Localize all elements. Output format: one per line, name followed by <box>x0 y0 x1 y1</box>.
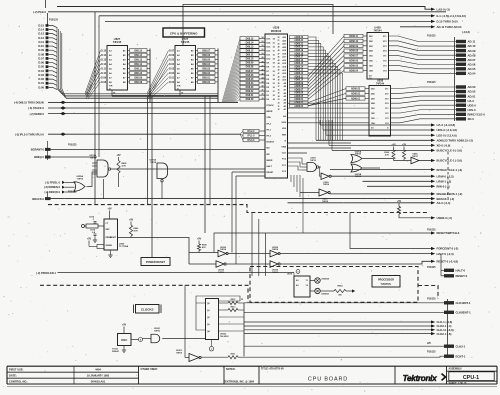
svg-text:43: 43 <box>278 65 280 68</box>
svg-text:D68.12: D68.12 <box>134 63 142 66</box>
svg-text:XD-0 (-6,9): XD-0 (-6,9) <box>437 143 451 147</box>
node UDS-0 output <box>431 128 457 132</box>
svg-text:OTHER USED:: OTHER USED: <box>141 368 158 371</box>
wire counter outputs <box>219 317 245 331</box>
svg-text:D68.02: D68.02 <box>246 90 254 93</box>
svg-text:52: 52 <box>273 87 275 89</box>
svg-text:DS9500: DS9500 <box>322 279 330 281</box>
node BGRANT-0 input <box>31 148 265 152</box>
svg-text:44: 44 <box>278 62 280 65</box>
wire top enable link <box>183 5 333 46</box>
svg-text:36: 36 <box>278 89 280 91</box>
wire AD68.23-12 bundle <box>308 37 431 140</box>
svg-text:41: 41 <box>278 72 280 75</box>
svg-text:BREQ-0: BREQ-0 <box>34 155 44 159</box>
node BREQ-0 input <box>34 155 97 159</box>
svg-text:D68.05: D68.05 <box>202 58 210 61</box>
buffer U458 74F244 <box>367 26 389 80</box>
wire CPU control row 3 <box>288 152 308 154</box>
node D.15 connector pin <box>38 23 57 27</box>
resistor R360 pullup <box>384 144 396 161</box>
svg-text:D68.05: D68.05 <box>246 78 254 81</box>
svg-text:39: 39 <box>262 98 264 100</box>
svg-text:ECNT-1: ECNT-1 <box>456 354 466 358</box>
svg-text:SHEET: 1 OF 10: SHEET: 1 OF 10 <box>449 382 467 385</box>
nand U9101A 74F00 <box>143 328 206 343</box>
node CLK2-1 b output <box>431 332 451 336</box>
wire dashed section boundary <box>48 205 429 213</box>
svg-text:CLK2-1 (-6): CLK2-1 (-6) <box>437 332 452 336</box>
connector label P15/J25 <box>427 229 436 231</box>
svg-text:D68.01: D68.01 <box>246 94 254 97</box>
wire AS-0 <box>288 202 432 204</box>
svg-text:(-2) DERR-0: (-2) DERR-0 <box>30 112 45 116</box>
wire AD68.11-04 to U458 <box>308 36 344 99</box>
node PLB-0 input label <box>33 10 46 14</box>
svg-text:BRACK-0: BRACK-0 <box>32 197 44 201</box>
wire CPU RESET to reset row <box>236 176 265 264</box>
wire CLK10NT <box>244 302 444 304</box>
wire U827 outputs to D68 bus <box>149 49 151 103</box>
svg-text:74F00: 74F00 <box>176 351 183 354</box>
svg-text:D68.02: D68.02 <box>202 72 210 75</box>
svg-text:AD68.18: AD68.18 <box>294 52 304 55</box>
buffer U827 74F245 <box>101 37 127 90</box>
svg-text:41: 41 <box>262 89 264 92</box>
svg-text:52: 52 <box>262 45 264 47</box>
svg-text:+5V: +5V <box>107 208 112 211</box>
wire U558 outputs <box>391 87 457 123</box>
wire AD68.03-01 to U558 <box>308 89 346 106</box>
junction 4 <box>131 338 143 342</box>
node XD-0 output <box>431 143 450 147</box>
svg-text:54: 54 <box>262 36 264 39</box>
svg-text:RESET: RESET <box>267 172 275 174</box>
resistor R954 390 <box>320 284 355 296</box>
node RESET-0 output <box>431 259 458 263</box>
svg-text:31: 31 <box>278 106 280 108</box>
node AD.06 connector pin <box>456 62 476 66</box>
wire clock bus vertical <box>243 303 245 356</box>
svg-text:(-2) DESUD-0: (-2) DESUD-0 <box>44 191 60 194</box>
svg-text:D.10: D.10 <box>101 73 107 75</box>
node ROMEN-0 input <box>44 186 75 190</box>
svg-text:34: 34 <box>278 95 280 98</box>
wire U727 outputs to D68 bus <box>217 49 219 103</box>
wire bus riser to U827 <box>85 50 101 98</box>
node D.05 connector pin <box>38 65 57 69</box>
svg-text:AD68.21: AD68.21 <box>294 42 304 45</box>
svg-text:D68.00: D68.00 <box>246 98 254 101</box>
node DERR-0 input <box>30 112 265 116</box>
svg-text:AD68.02: AD68.02 <box>294 105 304 108</box>
svg-text:(-3) IPL2-0 THRU IPL0-0: (-3) IPL2-0 THRU IPL0-0 <box>15 132 45 136</box>
svg-text:56: 56 <box>273 71 275 73</box>
node D.08 connector pin <box>38 52 57 56</box>
nand U368 74F10 <box>288 157 319 171</box>
svg-text:RESET-0 (-2,4,8): RESET-0 (-2,4,8) <box>437 259 459 263</box>
svg-text:51: 51 <box>262 49 264 51</box>
svg-text:D.00: D.00 <box>38 85 44 89</box>
svg-text:74F37: 74F37 <box>412 155 419 158</box>
svg-text:BUSCYCLE-0 (-3,6): BUSCYCLE-0 (-3,6) <box>437 149 462 153</box>
svg-text:AD68.04: AD68.04 <box>294 98 304 101</box>
wire FORCEINT <box>350 213 431 249</box>
svg-text:43: 43 <box>262 81 264 84</box>
net labels D68.07-D68.00 <box>196 49 219 84</box>
svg-text:PROCESSOR: PROCESSOR <box>378 278 394 281</box>
node DESUD-0 input <box>44 190 75 194</box>
svg-text:2G: 2G <box>371 128 374 130</box>
svg-text:BERR: BERR <box>267 160 273 162</box>
svg-text:D68.11: D68.11 <box>246 54 254 57</box>
svg-text:USER-0 (-2): USER-0 (-2) <box>437 216 452 220</box>
svg-text:BUSCYCLE-1 (-3,6): BUSCYCLE-1 (-3,6) <box>437 159 462 163</box>
net labels AD68.23-AD68.01 <box>290 36 309 108</box>
svg-text:P15/J25: P15/J25 <box>427 352 436 354</box>
wire bus riser to U727 <box>147 50 169 98</box>
title block notes <box>226 368 236 371</box>
svg-text:55: 55 <box>273 75 275 77</box>
svg-text:62: 62 <box>273 46 275 48</box>
svg-text:D68.01: D68.01 <box>202 76 210 79</box>
svg-text:AD.06: AD.06 <box>468 62 476 66</box>
node CLK2-1 pin connector pin <box>444 344 466 348</box>
svg-text:+5V: +5V <box>391 144 396 147</box>
wire bus vertical x95 <box>94 12 96 205</box>
svg-text:AD68.19: AD68.19 <box>294 49 304 52</box>
node D.13 connector pin <box>38 32 57 36</box>
svg-text:AD68.09: AD68.09 <box>349 45 359 48</box>
connector label P15/J25 <box>427 267 436 269</box>
svg-text:P15/J25: P15/J25 <box>427 267 436 269</box>
node D.14 connector pin <box>38 28 57 32</box>
wire RESETSWITCH <box>214 233 431 253</box>
svg-text:D68.14: D68.14 <box>134 54 142 57</box>
svg-text:LDS-0: LDS-0 <box>468 108 477 112</box>
title block other used <box>141 368 158 371</box>
resistor R911 33 <box>201 354 445 359</box>
counter U9102 74LS393 <box>206 299 230 340</box>
svg-text:TL7705A: TL7705A <box>119 245 129 248</box>
node AD68.23 THRU AD68.12 output <box>431 138 473 142</box>
capacitor C916 6.8 <box>90 229 97 242</box>
node BRACK-0 right output <box>431 197 454 201</box>
svg-text:35: 35 <box>278 93 280 95</box>
oscillator Y9101 20MHZ <box>112 324 131 353</box>
wire R/W-0 <box>367 185 431 187</box>
wire bus vertical x152 <box>151 96 153 258</box>
connector dashed line right <box>447 152 449 198</box>
svg-text:51: 51 <box>278 40 280 42</box>
svg-text:74LS393: 74LS393 <box>220 335 229 338</box>
wire PLB-0 <box>48 11 446 13</box>
wire CPU control row 1 <box>288 142 352 144</box>
or gate U470A 74F32 <box>351 150 394 162</box>
wire CLK-1 <box>244 321 431 323</box>
svg-text:44: 44 <box>262 77 264 80</box>
capacitor C915 .1 <box>89 216 96 223</box>
wire dashed PROCLED boundary <box>40 285 248 302</box>
svg-text:42: 42 <box>278 69 280 72</box>
svg-text:47K: 47K <box>202 246 206 249</box>
svg-text:49: 49 <box>273 98 275 101</box>
svg-text:HALT-0: HALT-0 <box>456 268 466 272</box>
svg-text:LDS-0 (-2,3,4,6): LDS-0 (-2,3,4,6) <box>437 133 457 137</box>
svg-text:AD.02: AD.02 <box>468 90 476 94</box>
svg-text:AD.11 THRU AD.04: AD.11 THRU AD.04 <box>437 25 462 29</box>
svg-text:T/R: T/R <box>109 86 113 88</box>
svg-text:LR/W-1 (-2): LR/W-1 (-2) <box>437 179 452 183</box>
net labels AD68.11-AD68.04 at U458 <box>344 34 367 72</box>
node D.02 connector pin <box>38 77 57 81</box>
wire CPU lower pin stubs <box>291 175 300 197</box>
connector label P15/J25 left BRACK <box>48 191 78 199</box>
svg-text:POWER RESET: POWER RESET <box>146 260 166 264</box>
svg-text:VMA: VMA <box>281 146 286 149</box>
svg-text:D.09: D.09 <box>101 77 107 79</box>
svg-text:D.15: D.15 <box>101 50 107 52</box>
title block frame <box>7 366 497 384</box>
node LR/W-0 output <box>431 174 454 178</box>
svg-text:ASSEMBLY:: ASSEMBLY: <box>449 368 463 371</box>
svg-text:4404: 4404 <box>95 367 101 371</box>
svg-text:48: 48 <box>278 49 280 52</box>
svg-text:D.07: D.07 <box>169 50 175 52</box>
node RESETSWITCH-0 output <box>431 231 460 235</box>
svg-text:RESETSWITCH-0: RESETSWITCH-0 <box>437 231 460 235</box>
svg-text:+5V: +5V <box>116 154 121 157</box>
svg-text:TEKTRONIX, INC. @ 1984: TEKTRONIX, INC. @ 1984 <box>224 381 255 384</box>
inverter U9100C 74F04 <box>270 247 431 257</box>
svg-text:D.02: D.02 <box>169 73 175 75</box>
svg-text:74F10: 74F10 <box>310 159 317 162</box>
svg-text:UA-0 (-2,4,6,8): UA-0 (-2,4,6,8) <box>437 123 456 127</box>
node RESET-0 pin connector pin <box>444 274 468 278</box>
svg-text:HALT-0 (-2,4): HALT-0 (-2,4) <box>437 252 454 256</box>
junction 1 <box>209 340 213 351</box>
buffer U727 74F245 <box>169 37 195 90</box>
svg-text:E-1 (-3,5)(-2,4,7,8,9,10): E-1 (-3,5)(-2,4,7,8,9,10) <box>437 14 466 18</box>
net labels AD68.03-AD68.01 at U558 <box>346 87 369 101</box>
wire CLK2-1 b <box>244 333 431 335</box>
title block assembly <box>449 368 495 385</box>
ic U579 LED driver <box>287 270 310 297</box>
svg-text:D68.10: D68.10 <box>246 58 254 61</box>
svg-text:59: 59 <box>273 59 275 61</box>
svg-text:48: 48 <box>262 60 264 63</box>
svg-text:CLOCKS: CLOCKS <box>141 308 154 312</box>
svg-text:CPU BOARD: CPU BOARD <box>308 376 348 382</box>
svg-text:42: 42 <box>262 85 264 88</box>
svg-text:LAS-0 (-3): LAS-0 (-3) <box>437 7 450 11</box>
svg-text:4.7K: 4.7K <box>134 229 139 232</box>
svg-text:D.05: D.05 <box>169 59 175 61</box>
svg-text:D.13: D.13 <box>38 32 44 36</box>
svg-text:33: 33 <box>278 99 280 101</box>
svg-text:D.06: D.06 <box>38 61 44 65</box>
svg-text:74F244: 74F244 <box>376 82 385 85</box>
power +5V reset <box>107 208 112 220</box>
svg-text:AD68.23: AD68.23 <box>294 36 304 39</box>
svg-text:AS-0 (-2,4): AS-0 (-2,4) <box>437 201 451 205</box>
svg-text:D.14: D.14 <box>38 28 44 32</box>
node INTRACYCLE-1 output <box>431 168 462 172</box>
svg-text:D68.14: D68.14 <box>246 41 254 44</box>
svg-text:CONTROL NO.:: CONTROL NO.: <box>9 379 28 383</box>
node D.11 connector pin <box>38 40 57 44</box>
connector label P15/J25 left BGRANT <box>48 141 78 160</box>
svg-text:XD-0: XD-0 <box>468 117 475 121</box>
svg-text:AD68.15: AD68.15 <box>294 62 304 65</box>
wire bus vertical x205 <box>204 96 206 233</box>
svg-text:P15/J25: P15/J25 <box>49 18 59 21</box>
svg-text:74F245: 74F245 <box>181 41 190 44</box>
svg-text:P15/J25: P15/J25 <box>427 82 436 84</box>
svg-text:D.06: D.06 <box>169 55 175 57</box>
net labels IPL2-IPL0 <box>240 129 265 142</box>
title block tektronix inc <box>224 381 255 384</box>
svg-text:74F38: 74F38 <box>90 157 97 160</box>
svg-text:+5V: +5V <box>122 324 127 327</box>
svg-text:STATUS: STATUS <box>381 283 391 286</box>
node AS-0 output <box>431 201 450 205</box>
svg-text:D68.06: D68.06 <box>246 74 254 77</box>
buffer U486 74F04 <box>394 153 432 164</box>
svg-text:AD.07: AD.07 <box>468 58 476 62</box>
svg-text:74F00: 74F00 <box>77 178 84 181</box>
svg-text:FIRST USE:: FIRST USE: <box>9 367 24 371</box>
node R/WCYCLE-0 connector pin <box>456 112 485 116</box>
svg-text:38: 38 <box>278 83 280 85</box>
svg-text:AD68.04: AD68.04 <box>349 69 359 72</box>
node AD.07 connector pin <box>456 58 476 62</box>
connector P15/J25 top-left <box>48 13 59 24</box>
svg-text:4.7K: 4.7K <box>385 153 390 156</box>
wire U558 lower inputs <box>288 103 370 123</box>
svg-text:AD.03: AD.03 <box>468 85 476 89</box>
svg-text:DS9501: DS9501 <box>322 294 330 296</box>
wire LR/W-1 <box>363 180 432 182</box>
svg-text:AD68.17: AD68.17 <box>294 56 304 59</box>
nand U374A 74F38 <box>90 154 111 177</box>
svg-text:46: 46 <box>262 68 264 71</box>
svg-text:4.7K: 4.7K <box>122 165 127 168</box>
svg-text:74F04: 74F04 <box>220 248 227 251</box>
svg-text:AD.09: AD.09 <box>468 49 476 53</box>
svg-text:49: 49 <box>278 46 280 49</box>
svg-text:D.15 THRU D.00: D.15 THRU D.00 <box>437 20 459 24</box>
node AD.02 connector pin <box>456 90 476 94</box>
svg-text:D.01: D.01 <box>169 77 175 79</box>
svg-text:D68.13: D68.13 <box>246 45 254 48</box>
wire CLK-11 <box>244 329 431 331</box>
svg-text:AD68.07: AD68.07 <box>349 55 359 58</box>
node CLK-11 output <box>431 328 454 332</box>
connector label J25 <box>427 343 432 345</box>
node D.07 connector pin <box>38 56 57 60</box>
led DS9501 <box>310 288 330 295</box>
node ECNT-1 pin connector pin <box>444 354 466 358</box>
svg-text:AD68.16: AD68.16 <box>294 59 304 62</box>
svg-text:AD68.11: AD68.11 <box>349 35 359 38</box>
node USER-0 output <box>431 216 452 220</box>
svg-text:45: 45 <box>262 72 264 75</box>
node D.15 THRU D.00 output <box>431 20 458 24</box>
node AD.03 connector pin <box>456 85 476 89</box>
node BUSCYCLE-1 output <box>431 159 462 163</box>
power +5V C918 <box>87 238 104 249</box>
node AD THRU note <box>462 31 470 34</box>
resistor R361 pullup <box>402 144 407 161</box>
svg-text:+5V: +5V <box>129 219 134 222</box>
svg-text:(-4,6,8): (-4,6,8) <box>462 31 470 34</box>
svg-text:39: 39 <box>278 80 280 82</box>
nand U376A 74F08 <box>150 158 168 198</box>
node AD.11 connector pin <box>456 40 476 44</box>
svg-text:AD68.14: AD68.14 <box>294 65 304 68</box>
svg-text:74F04: 74F04 <box>323 183 330 186</box>
svg-text:74F00: 74F00 <box>154 330 161 333</box>
svg-text:D.04: D.04 <box>169 63 175 66</box>
svg-text:BGACK: BGACK <box>267 141 275 144</box>
node D.00 connector pin <box>38 85 57 89</box>
svg-text:U579: U579 <box>287 274 293 276</box>
node AD.08 connector pin <box>456 53 476 57</box>
svg-text:D.05: D.05 <box>38 65 44 69</box>
node LR/W-1 output <box>431 179 451 183</box>
svg-text:40: 40 <box>278 75 280 78</box>
svg-text:50: 50 <box>262 53 264 55</box>
svg-text:D68.09: D68.09 <box>134 76 142 79</box>
svg-text:D68.03: D68.03 <box>246 86 254 89</box>
svg-text:AD68.08: AD68.08 <box>294 85 304 88</box>
node IPL2-0 THRU IPL0-0 input <box>15 132 240 136</box>
svg-text:AD.05: AD.05 <box>468 67 476 71</box>
connector label P15/J25 <box>427 82 436 84</box>
svg-text:R/W: R/W <box>282 134 286 136</box>
wire D68 bus fan <box>222 38 240 102</box>
connector line P15/J25 right lower <box>447 299 449 358</box>
svg-text:20MHZ: 20MHZ <box>112 351 120 353</box>
wire UA rows <box>320 120 431 150</box>
svg-text:53: 53 <box>273 83 275 85</box>
svg-text:MC68010: MC68010 <box>271 30 282 33</box>
wire U727 enable pins <box>112 90 218 96</box>
svg-text:74F08: 74F08 <box>150 161 157 164</box>
svg-text:D.09: D.09 <box>38 48 44 52</box>
wire CLK8ENT <box>244 311 444 313</box>
section label CPU & BUFFERING <box>163 28 205 37</box>
svg-text:64: 64 <box>273 37 275 40</box>
node AD.09 connector pin <box>456 49 476 53</box>
section label CLOCKS <box>134 305 162 314</box>
resistor R402 4.7K pullup <box>116 154 127 187</box>
svg-text:D.00: D.00 <box>169 82 175 84</box>
svg-text:LDS: LDS <box>282 128 287 130</box>
svg-text:D.15: D.15 <box>38 23 44 27</box>
svg-text:P15/J25: P15/J25 <box>427 299 436 301</box>
section label POWER RESET <box>141 258 170 266</box>
led DS9500 <box>310 278 330 283</box>
svg-text:AD68.12: AD68.12 <box>294 72 304 75</box>
node D.04 connector pin <box>38 69 57 73</box>
svg-text:D.03: D.03 <box>38 73 44 77</box>
wire CPU control row 2 <box>288 147 352 149</box>
inverter U9100D 74F04 <box>270 261 431 274</box>
node DISABLEBUS-1 output <box>431 192 462 196</box>
node D.09 connector pin <box>38 48 57 52</box>
